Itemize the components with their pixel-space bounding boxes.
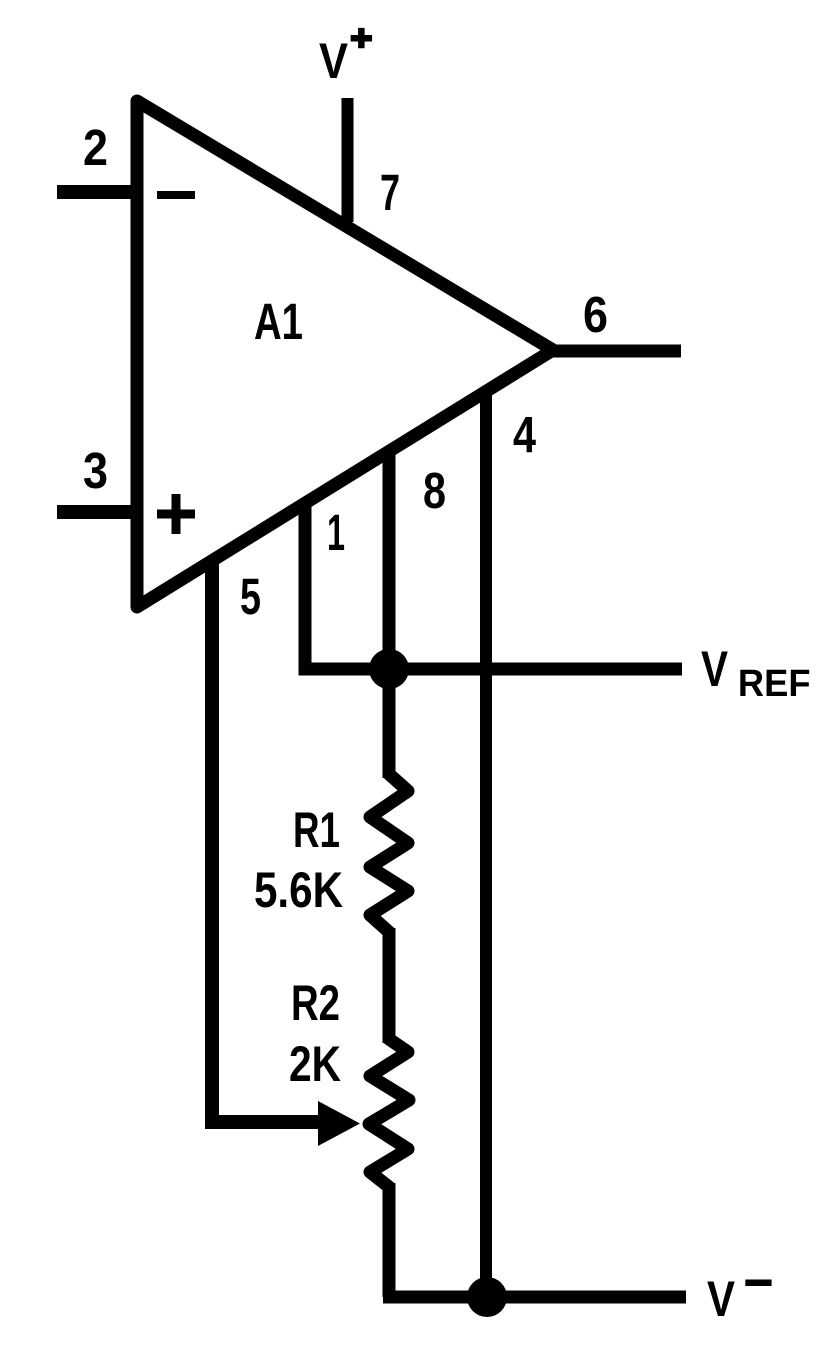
junction dot VREF/R1 (369, 649, 409, 689)
svg-text:V: V (707, 1271, 736, 1327)
junction dot pin4/V- (467, 1277, 507, 1317)
svg-text:V: V (319, 33, 349, 89)
VREF wire (389, 663, 682, 676)
pin 6 output wire (550, 345, 681, 358)
inverting input minus marker (157, 191, 195, 199)
svg-text:2K: 2K (289, 1036, 341, 1092)
non-inverting input plus marker (157, 494, 195, 534)
VREF label (701, 641, 811, 705)
V- rail wire (383, 1291, 686, 1304)
pin 2 wire (inverting input) (57, 185, 141, 199)
wiper arrowhead into R2 (318, 1101, 360, 1146)
svg-text:3: 3 (83, 442, 108, 499)
V+ supply wire (pin 7) (342, 98, 354, 222)
pin 4 wire (480, 388, 492, 1297)
wire R2 bottom to V- rail (383, 1183, 396, 1297)
svg-text:2: 2 (83, 119, 108, 176)
pin 1 wire to VREF (305, 502, 391, 669)
resistor R2 zigzag (369, 1039, 409, 1187)
V+ label (319, 28, 372, 89)
resistor R1 zigzag (370, 774, 408, 932)
svg-text:4: 4 (513, 406, 537, 463)
op-amp A1 triangle (137, 101, 553, 607)
svg-text:REF: REF (738, 663, 811, 705)
svg-text:A1: A1 (254, 293, 303, 350)
svg-text:7: 7 (380, 164, 400, 221)
pin 3 wire (non-inverting input) (57, 505, 141, 519)
svg-text:R1: R1 (293, 802, 340, 858)
wire between R1 and R2 (383, 928, 396, 1043)
svg-text:8: 8 (423, 462, 446, 519)
V- label (707, 1271, 772, 1327)
svg-text:6: 6 (583, 286, 608, 343)
pin 5 balance wire with corner (212, 560, 324, 1122)
svg-text:5: 5 (240, 568, 261, 625)
svg-text:V: V (701, 641, 729, 697)
pin 8 wire from op-amp to R1 (383, 449, 396, 778)
svg-text:1: 1 (327, 504, 345, 561)
svg-text:R2: R2 (291, 975, 340, 1031)
svg-text:5.6K: 5.6K (254, 862, 343, 918)
